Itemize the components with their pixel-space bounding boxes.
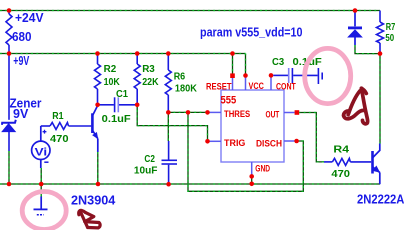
svg-text:470: 470 <box>331 169 350 180</box>
svg-text:22K: 22K <box>142 77 159 88</box>
svg-text:10uF: 10uF <box>134 166 158 177</box>
svg-text:680: 680 <box>12 29 32 44</box>
arrow of Q2 emitter <box>372 166 380 173</box>
svg-text:Vi: Vi <box>35 146 48 158</box>
wire RESET drop from +9V rail <box>232 54 234 76</box>
svg-text:C1: C1 <box>116 89 128 100</box>
svg-text:R3: R3 <box>142 64 155 75</box>
svg-text:2N2222A: 2N2222A <box>357 191 405 206</box>
pin stub GND <box>251 162 253 176</box>
svg-text:CONT: CONT <box>276 82 296 93</box>
pin stub TRIG <box>209 140 221 142</box>
svg-text:C3: C3 <box>272 57 284 68</box>
svg-text:50: 50 <box>385 33 394 44</box>
junction square RESET <box>230 73 235 78</box>
annotation pink circle (top right) <box>305 48 351 103</box>
svg-text:R7: R7 <box>386 22 396 33</box>
wire THRES net <box>168 111 209 113</box>
capacitor C1 <box>100 97 136 112</box>
resistor R6 <box>165 54 171 113</box>
wire +9V rail <box>0 53 246 55</box>
capacitor C2 <box>162 141 178 184</box>
wire Vi bottom to rail <box>40 168 42 184</box>
svg-text:VCC: VCC <box>249 81 264 92</box>
svg-text:10K: 10K <box>104 77 121 88</box>
svg-text:OUT: OUT <box>266 110 280 121</box>
resistor R4 <box>324 158 371 165</box>
wire TRIG net <box>137 105 207 141</box>
svg-text:+24V: +24V <box>15 10 44 25</box>
svg-text:555: 555 <box>221 95 237 107</box>
svg-text:RESET: RESET <box>206 81 232 92</box>
annotation pink circle (ground) <box>22 192 66 230</box>
wire left column to ground <box>8 151 10 184</box>
ground symbol <box>34 197 48 215</box>
pin stub THRES <box>209 111 221 113</box>
wire R7 bottom to Q2 collector <box>379 54 381 144</box>
svg-text:GND: GND <box>255 163 270 174</box>
wire OUT to R4 <box>299 113 325 162</box>
wire DISCH loop <box>188 112 303 191</box>
zener diode D1 <box>2 54 16 152</box>
IC U1 555 box <box>221 90 284 162</box>
minus mark of Vi <box>44 161 48 163</box>
svg-text:R1: R1 <box>52 111 64 122</box>
svg-text:R2: R2 <box>104 64 117 75</box>
plus mark of Vi <box>43 130 47 134</box>
transistor Q1 2N3904 <box>92 106 97 152</box>
svg-text:C2: C2 <box>144 154 155 165</box>
diode D2 <box>348 11 362 46</box>
resistor R1 <box>41 123 92 130</box>
wire diode to R7 bottom <box>355 45 380 54</box>
svg-text:2N3904: 2N3904 <box>71 193 116 208</box>
resistor R7 <box>377 11 384 54</box>
svg-text:180K: 180K <box>175 83 197 94</box>
svg-text:470: 470 <box>50 134 69 145</box>
svg-text:DISCH: DISCH <box>256 138 282 149</box>
wire +24V rail <box>0 10 380 12</box>
pin stub RESET <box>232 78 234 90</box>
resistor R3 <box>134 54 140 105</box>
svg-text:+9V: +9V <box>13 53 29 68</box>
svg-text:TRIG: TRIG <box>224 138 245 149</box>
wire Q1 emitter to rail <box>97 152 99 184</box>
annotation letter B <box>79 210 100 228</box>
svg-text:9V: 9V <box>13 106 29 121</box>
voltage source Vi <box>32 126 50 168</box>
svg-text:THRES: THRES <box>224 109 251 120</box>
arrow of Q1 emitter <box>92 132 98 139</box>
wire GND pin to ground rail <box>251 176 253 184</box>
pin stub CONT <box>270 78 272 91</box>
pin stub DISCH <box>284 140 295 142</box>
svg-text:0.1uF: 0.1uF <box>102 114 131 125</box>
resistor R2 <box>95 54 101 105</box>
pin stub OUT <box>284 112 295 114</box>
svg-text:R6: R6 <box>174 72 186 83</box>
svg-text:param v555_vdd=10: param v555_vdd=10 <box>200 26 303 40</box>
capacitor C3 <box>273 68 322 84</box>
wire ground symbol stem <box>40 184 42 197</box>
resistor 680 <box>6 11 12 54</box>
svg-text:R4: R4 <box>333 145 349 156</box>
pin stub VCC <box>245 78 247 91</box>
transistor Q2 2N2222A <box>373 144 380 185</box>
wire R6 to C2 <box>167 112 169 141</box>
wire dash highlights <box>0 11 380 197</box>
junction square OUT <box>295 110 300 115</box>
wire ground rail <box>0 183 380 185</box>
wire VCC drop <box>245 54 247 78</box>
annotation letter A <box>344 88 368 124</box>
